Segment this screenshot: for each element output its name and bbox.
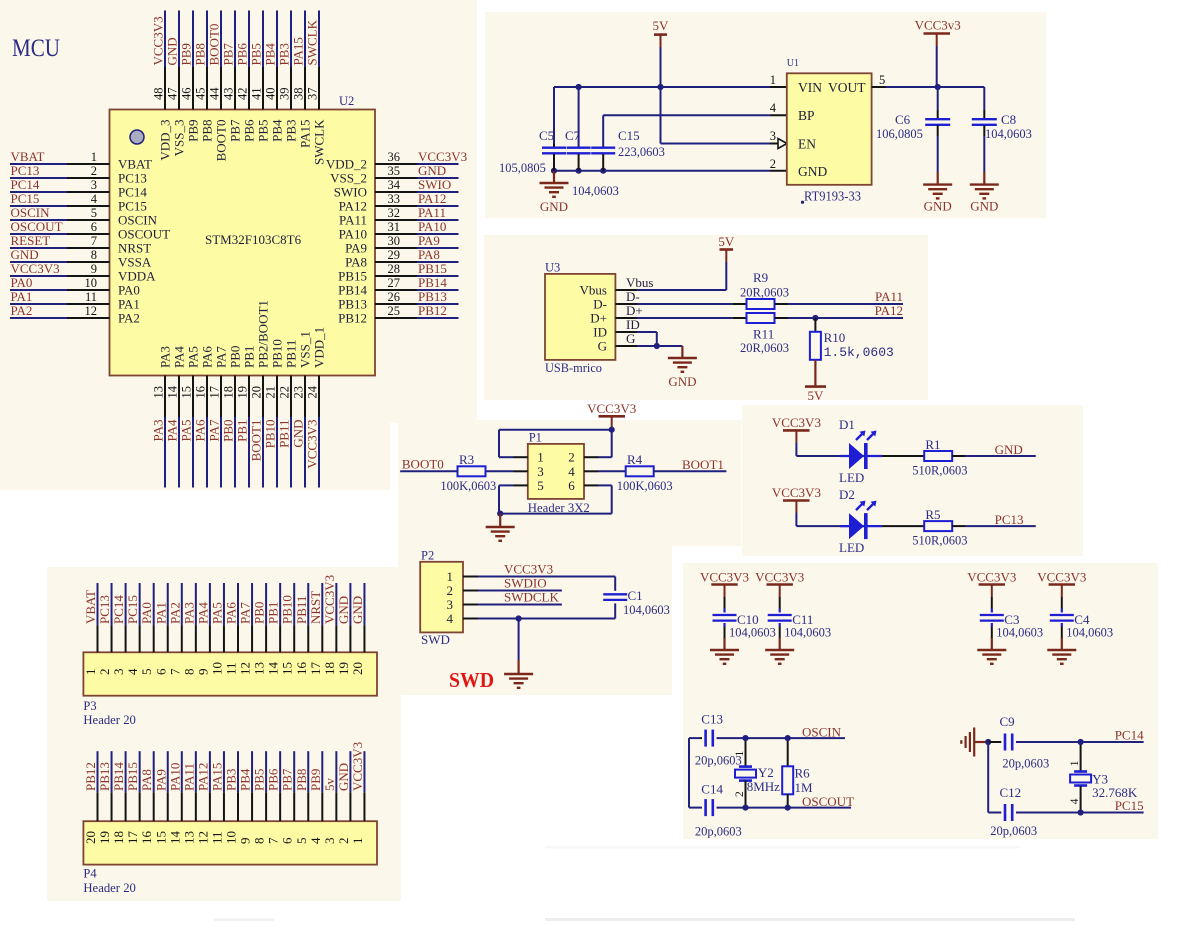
svg-text:PA9: PA9 <box>153 769 168 791</box>
svg-text:D1: D1 <box>839 417 855 432</box>
LED D1 <box>849 443 864 469</box>
wire VIN bus <box>554 86 787 88</box>
svg-text:45: 45 <box>194 88 208 101</box>
wire P1 pin2 to VCC3V3 <box>584 428 612 457</box>
wire Vbus <box>626 262 726 290</box>
resistor R11 <box>747 313 775 323</box>
svg-text:SWD: SWD <box>421 632 450 647</box>
wire P1 pin1 to VCC3V3 <box>499 430 612 458</box>
svg-text:PA15: PA15 <box>291 37 306 65</box>
svg-text:PB0: PB0 <box>221 420 236 442</box>
svg-text:PC14: PC14 <box>11 177 40 192</box>
svg-text:106,0805: 106,0805 <box>876 127 923 141</box>
junction VOUT/C6 <box>935 84 941 90</box>
svg-text:Header 20: Header 20 <box>83 712 135 727</box>
U2 pin 42 PB6 wire+label <box>235 11 257 142</box>
svg-text:10: 10 <box>85 276 98 290</box>
svg-text:NRST: NRST <box>118 241 151 256</box>
junction GND/P1 <box>497 510 503 516</box>
svg-text:BOOT1: BOOT1 <box>682 457 724 472</box>
svg-text:PB1: PB1 <box>266 602 281 624</box>
svg-text:9: 9 <box>195 669 210 676</box>
svg-text:9: 9 <box>91 262 97 276</box>
junction C7 top <box>576 84 582 90</box>
wire P1 pin4 to R4 <box>584 470 626 472</box>
junction Y2 bottom dots <box>742 805 748 811</box>
svg-text:PB3: PB3 <box>277 43 292 65</box>
svg-text:GND: GND <box>165 37 180 65</box>
regulator U1 body <box>787 73 872 185</box>
capacitor C9 <box>1004 734 1007 751</box>
svg-text:C6: C6 <box>895 112 911 127</box>
svg-text:R11: R11 <box>753 327 774 342</box>
svg-text:C12: C12 <box>1000 785 1022 800</box>
svg-text:GND: GND <box>291 420 306 448</box>
svg-text:47: 47 <box>166 88 180 101</box>
svg-text:VBAT: VBAT <box>83 590 98 624</box>
svg-text:13: 13 <box>152 386 166 399</box>
svg-text:PB14: PB14 <box>111 762 126 791</box>
svg-text:PB10: PB10 <box>263 420 278 449</box>
svg-text:VDD_2: VDD_2 <box>326 157 367 172</box>
svg-text:1: 1 <box>734 751 746 757</box>
svg-text:SWIO: SWIO <box>334 185 367 200</box>
U2 pin 29 PA8 wire+label <box>345 247 458 270</box>
resistor R10 <box>810 318 821 360</box>
svg-text:4: 4 <box>125 668 140 675</box>
svg-text:PB5: PB5 <box>249 43 264 65</box>
wire 5V down to EN <box>660 87 662 144</box>
svg-text:PC13: PC13 <box>11 163 40 178</box>
U2 pin 32 PA11 wire+label <box>339 205 458 228</box>
P3 pin 8 PA3 <box>181 583 196 675</box>
svg-text:105,0805: 105,0805 <box>499 161 546 175</box>
U2 pin 17 PA7 wire+label <box>207 346 229 488</box>
svg-text:11: 11 <box>209 831 224 844</box>
U2 pin 26 PB13 wire+label <box>338 289 458 312</box>
svg-text:PB13: PB13 <box>418 289 447 304</box>
svg-text:D-: D- <box>593 297 607 312</box>
svg-text:VSS_2: VSS_2 <box>330 171 367 186</box>
power VCC3V3 symbol C3 <box>967 569 1016 597</box>
svg-text:PC13: PC13 <box>118 171 147 186</box>
capacitor C13 <box>704 730 707 747</box>
svg-text:PB13: PB13 <box>338 297 367 312</box>
svg-text:PB3: PB3 <box>224 769 239 791</box>
wire VOUT <box>872 86 985 88</box>
svg-text:32.768K: 32.768K <box>1092 785 1138 800</box>
svg-text:R9: R9 <box>753 270 768 285</box>
svg-text:EN: EN <box>798 137 816 152</box>
U2 pin 22 PB11 wire+label <box>277 340 299 488</box>
svg-text:PA5: PA5 <box>179 420 194 442</box>
wire PC14 <box>988 741 1143 743</box>
svg-text:4: 4 <box>1069 798 1081 804</box>
svg-text:PB12: PB12 <box>338 311 367 326</box>
U2 pin-1 marker <box>130 130 144 144</box>
svg-text:8: 8 <box>91 248 97 262</box>
svg-text:GND: GND <box>418 163 446 178</box>
svg-text:15: 15 <box>153 831 168 844</box>
svg-text:P4: P4 <box>83 867 97 881</box>
U2 pin 9 VDDA wire+label <box>10 261 156 284</box>
svg-text:PA5: PA5 <box>186 346 201 368</box>
svg-text:C14: C14 <box>701 781 723 796</box>
svg-text:20: 20 <box>83 831 98 844</box>
svg-text:VIN: VIN <box>798 80 822 95</box>
svg-text:VCC3V3: VCC3V3 <box>587 401 636 416</box>
svg-text:17: 17 <box>125 831 140 845</box>
svg-text:31: 31 <box>388 220 401 234</box>
P4 pin 11 PA15 <box>209 751 224 844</box>
P4 pin 5 PB8 <box>294 751 309 844</box>
wire ID <box>626 317 657 346</box>
P3 pin 14 PB1 <box>266 583 281 675</box>
svg-text:PA6: PA6 <box>224 602 239 624</box>
P3 pin 11 PA6 <box>224 583 239 675</box>
capacitor C5 <box>542 87 566 171</box>
svg-text:3: 3 <box>322 838 337 845</box>
svg-text:MCU: MCU <box>12 35 60 62</box>
svg-text:7: 7 <box>167 668 182 675</box>
U3 pin Vbus <box>580 283 637 298</box>
P4 pin 9 PB4 <box>238 751 253 844</box>
svg-text:PB8: PB8 <box>200 120 215 142</box>
ground GND C11 <box>765 638 794 664</box>
svg-text:PA1: PA1 <box>153 602 168 624</box>
svg-text:4: 4 <box>308 837 323 844</box>
MCU U2 body <box>110 110 376 376</box>
svg-text:R6: R6 <box>795 765 811 780</box>
svg-text:VCC3v3: VCC3v3 <box>915 18 961 33</box>
junction Y2 top dots <box>742 735 748 741</box>
svg-text:2: 2 <box>734 791 746 797</box>
svg-text:GND: GND <box>668 374 696 389</box>
U2 pin 43 PB7 wire+label <box>221 11 243 142</box>
wire PC15 <box>988 812 1143 814</box>
svg-text:PB7: PB7 <box>280 768 295 791</box>
P4 pin 6 PB7 <box>280 751 295 844</box>
svg-text:17: 17 <box>208 386 222 399</box>
U2 pin 5 OSCIN wire+label <box>10 205 158 228</box>
svg-text:29: 29 <box>388 248 401 262</box>
svg-text:26: 26 <box>388 290 401 304</box>
power VCC3V3 symbol C11 <box>755 569 804 597</box>
U2 pin 19 PB1 wire+label <box>235 346 257 488</box>
svg-text:PA6: PA6 <box>193 419 208 441</box>
svg-text:PB6: PB6 <box>266 768 281 791</box>
svg-text:PA9: PA9 <box>418 233 440 248</box>
svg-text:NRST: NRST <box>308 591 323 624</box>
svg-text:BOOT0: BOOT0 <box>214 120 229 162</box>
svg-text:25: 25 <box>388 304 401 318</box>
header P2 body <box>420 562 463 633</box>
svg-text:6: 6 <box>153 668 168 675</box>
P3 pin 9 PA4 <box>195 583 210 675</box>
svg-text:VCC3V3: VCC3V3 <box>350 742 365 791</box>
svg-text:GND: GND <box>336 763 351 791</box>
svg-text:LED: LED <box>839 540 864 555</box>
P4 pin 18 PB14 <box>111 751 126 844</box>
svg-text:12: 12 <box>85 304 98 318</box>
power VCC3V3 symbol D2 <box>772 485 821 512</box>
wire R4 to BOOT1 <box>654 470 727 472</box>
svg-text:PA7: PA7 <box>207 419 222 441</box>
wire D- to R9 <box>626 289 746 304</box>
svg-text:OSCIN: OSCIN <box>118 213 158 228</box>
U2 pin 24 VDD_1 wire+label <box>305 327 327 488</box>
svg-text:30: 30 <box>388 234 401 248</box>
svg-text:3: 3 <box>770 129 776 143</box>
U2 pin 11 PA1 wire+label <box>10 289 140 312</box>
svg-text:PC15: PC15 <box>118 199 147 214</box>
svg-text:3: 3 <box>91 178 97 192</box>
svg-text:2: 2 <box>447 583 454 598</box>
wire VCC3V3 to D1 <box>796 442 848 456</box>
svg-text:PB4: PB4 <box>270 119 285 142</box>
svg-text:2: 2 <box>97 669 112 676</box>
resistor R1 <box>924 451 952 461</box>
P3 pin 19 GND <box>336 583 351 675</box>
svg-text:PA1: PA1 <box>11 289 33 304</box>
svg-text:4: 4 <box>568 464 575 479</box>
P3 pin 2 PC13 <box>97 583 112 675</box>
U2 pin 15 PA5 wire+label <box>179 346 201 487</box>
svg-text:VOUT: VOUT <box>828 80 866 95</box>
svg-text:PA8: PA8 <box>418 247 440 262</box>
power VCC3V3 symbol C10 <box>700 569 749 597</box>
U2 pin 2 PC13 wire+label <box>10 163 147 186</box>
junction D+/R10 <box>812 315 818 321</box>
wire P2 pin1 VCC3V3 to C1 <box>463 576 615 578</box>
svg-text:223,0603: 223,0603 <box>618 145 665 159</box>
P3 pin 4 PC15 <box>125 583 140 675</box>
U1 pin numbers <box>770 73 886 171</box>
part name RT9193-33 <box>801 189 861 204</box>
svg-text:44: 44 <box>208 87 222 100</box>
P4 pin 17 PB15 <box>125 751 140 844</box>
wire GND drop P2 <box>518 619 520 675</box>
svg-text:PC13: PC13 <box>995 512 1024 527</box>
svg-text:VDD_3: VDD_3 <box>158 120 173 161</box>
svg-text:1: 1 <box>83 669 98 676</box>
svg-text:PC14: PC14 <box>1115 727 1144 742</box>
svg-text:PA11: PA11 <box>418 205 446 220</box>
svg-text:38: 38 <box>292 88 306 101</box>
svg-text:1: 1 <box>447 569 454 584</box>
U2 pin 25 PB12 wire+label <box>338 303 458 326</box>
wire P2 pin4 GND to C1 <box>463 618 615 620</box>
svg-text:RT9193-33: RT9193-33 <box>804 189 861 204</box>
svg-text:PA4: PA4 <box>165 419 180 441</box>
svg-text:PC15: PC15 <box>125 595 140 624</box>
svg-text:11: 11 <box>224 662 239 675</box>
svg-text:PB0: PB0 <box>252 602 267 624</box>
svg-text:OSCIN: OSCIN <box>802 724 842 739</box>
resistor R9 <box>747 299 775 309</box>
power 5V symbol <box>653 18 670 47</box>
header P4 body <box>83 821 377 864</box>
U2 pin 33 PA12 wire+label <box>339 191 459 214</box>
svg-text:104,0603: 104,0603 <box>623 603 670 617</box>
svg-text:C1: C1 <box>628 588 643 603</box>
svg-text:PA0: PA0 <box>11 275 33 290</box>
P3 pin 15 PB10 <box>280 583 295 675</box>
svg-text:GND: GND <box>924 199 952 214</box>
svg-text:D2: D2 <box>839 487 855 502</box>
svg-text:100K,0603: 100K,0603 <box>440 479 496 493</box>
svg-text:PA3: PA3 <box>158 346 173 368</box>
P4 pin 14 PA10 <box>167 751 182 844</box>
U2 pin 45 PB8 wire+label <box>193 11 215 142</box>
U2 pin 46 PB9 wire+label <box>179 11 201 142</box>
svg-text:VSSA: VSSA <box>118 255 152 270</box>
svg-text:PB9: PB9 <box>179 43 194 65</box>
svg-text:33: 33 <box>388 192 401 206</box>
U3 pin D+ <box>590 311 637 326</box>
svg-text:PA4: PA4 <box>172 346 187 368</box>
U2 pin 7 NRST wire+label <box>10 233 151 256</box>
svg-text:5v: 5v <box>322 778 337 792</box>
svg-text:PA15: PA15 <box>298 120 313 148</box>
svg-text:GND: GND <box>995 442 1023 457</box>
P2 pin numbers <box>447 569 454 626</box>
svg-text:C13: C13 <box>701 711 723 726</box>
svg-text:104,0603: 104,0603 <box>996 626 1043 640</box>
power 5V symbol USB <box>718 234 735 262</box>
svg-text:5V: 5V <box>807 388 824 403</box>
svg-text:VCC3V3: VCC3V3 <box>772 485 821 500</box>
svg-text:PB10: PB10 <box>280 595 295 624</box>
svg-text:Vbus: Vbus <box>580 283 607 298</box>
svg-text:11: 11 <box>85 290 97 304</box>
svg-text:GND: GND <box>970 199 998 214</box>
wire EN <box>661 139 788 149</box>
svg-text:12: 12 <box>195 831 210 844</box>
svg-text:20: 20 <box>350 662 365 675</box>
svg-text:22: 22 <box>278 386 292 399</box>
wire P2 pin2 SWDIO <box>463 590 562 592</box>
P3 pin 13 PB0 <box>252 583 267 675</box>
svg-text:VCC3V3: VCC3V3 <box>305 420 320 469</box>
wire P2 pin3 SWDCLK <box>463 604 562 606</box>
wire VOUT to C8 <box>983 87 985 110</box>
svg-text:VCC3V3: VCC3V3 <box>418 149 467 164</box>
svg-text:PB0: PB0 <box>228 346 243 368</box>
svg-text:R10: R10 <box>824 330 846 345</box>
capacitor C6 <box>925 87 950 185</box>
svg-text:VBAT: VBAT <box>118 157 152 172</box>
svg-text:GND: GND <box>11 247 39 262</box>
svg-text:15: 15 <box>280 662 295 675</box>
ground GND C10 <box>710 638 739 664</box>
P1 pin numbers <box>537 450 575 493</box>
resistor R6 <box>782 738 793 808</box>
svg-text:PB3: PB3 <box>284 120 299 142</box>
wire P1 pin3 to R3 <box>485 470 527 472</box>
svg-text:VDDA: VDDA <box>118 269 156 284</box>
svg-text:PA3: PA3 <box>151 420 166 442</box>
U2 pin 30 PA9 wire+label <box>345 233 458 256</box>
svg-text:104,0603: 104,0603 <box>985 127 1032 141</box>
svg-text:PB14: PB14 <box>418 275 447 290</box>
svg-text:32: 32 <box>388 206 401 220</box>
svg-text:35: 35 <box>388 164 401 178</box>
svg-text:24: 24 <box>306 385 320 398</box>
svg-text:6: 6 <box>91 220 97 234</box>
svg-text:Vbus: Vbus <box>626 275 653 290</box>
svg-text:D+: D+ <box>590 311 607 326</box>
svg-text:OSCIN: OSCIN <box>11 205 51 220</box>
junction VCC3V3/P1 <box>609 427 615 433</box>
USB connector U3 body <box>545 274 615 360</box>
svg-text:P3: P3 <box>83 699 96 713</box>
svg-text:PB15: PB15 <box>338 269 367 284</box>
svg-text:GND: GND <box>540 199 568 214</box>
ground GND below C5 <box>540 171 569 214</box>
header P3 body <box>83 652 377 695</box>
P4 pin 15 PA9 <box>153 751 168 844</box>
svg-text:20p,0603: 20p,0603 <box>990 824 1037 838</box>
U2 pin 44 BOOT0 wire+label <box>207 11 229 162</box>
svg-text:18: 18 <box>111 831 126 844</box>
svg-text:1: 1 <box>91 150 97 164</box>
svg-text:6: 6 <box>568 478 575 493</box>
svg-text:PB11: PB11 <box>277 420 292 448</box>
svg-text:PB8: PB8 <box>193 43 208 65</box>
wire R1 to GND <box>952 455 1036 457</box>
P3 pin 7 PA2 <box>167 583 182 675</box>
svg-text:5: 5 <box>879 73 885 87</box>
power 5V inverted symbol <box>805 360 826 403</box>
U2 pin 39 PB3 wire+label <box>277 11 299 142</box>
svg-text:PB4: PB4 <box>238 768 253 791</box>
svg-text:VDD_1: VDD_1 <box>312 327 327 368</box>
svg-text:2: 2 <box>91 164 97 178</box>
svg-text:VCC3V3: VCC3V3 <box>967 569 1016 584</box>
svg-text:14: 14 <box>166 385 180 398</box>
capacitor C8 <box>972 110 997 185</box>
wire 5V to VIN rail <box>660 47 662 87</box>
capacitor C10 <box>713 597 737 638</box>
junction PC14/Y3 <box>1078 739 1084 745</box>
svg-text:PA8: PA8 <box>345 255 367 270</box>
svg-text:BOOT0: BOOT0 <box>207 24 222 66</box>
U2 pin 20 PB2/BOOT1 wire+label <box>249 300 271 487</box>
svg-text:14: 14 <box>167 831 182 845</box>
svg-text:5: 5 <box>91 206 97 220</box>
svg-text:R3: R3 <box>459 452 474 467</box>
svg-text:23: 23 <box>292 386 306 399</box>
ground GND P1 <box>486 514 515 541</box>
svg-text:7: 7 <box>266 837 281 844</box>
svg-text:C7: C7 <box>565 128 581 143</box>
junction PC15/Y3 <box>1078 809 1084 815</box>
wire R3 to BOOT0 <box>400 470 457 472</box>
U3 pin ID <box>593 325 637 340</box>
P4 pin 10 PB3 <box>224 751 239 844</box>
U2 pin 12 PA2 wire+label <box>10 303 140 326</box>
U2 pin 4 PC15 wire+label <box>10 191 147 214</box>
svg-text:PB12: PB12 <box>83 762 98 791</box>
wire VCC3v3 to VOUT <box>936 46 938 87</box>
svg-text:PB11: PB11 <box>284 340 299 368</box>
svg-text:37: 37 <box>306 88 320 101</box>
svg-text:PB5: PB5 <box>252 769 267 791</box>
wire R5 to PC13 <box>952 525 1036 527</box>
svg-text:21: 21 <box>264 386 278 399</box>
P3 pin 17 NRST <box>308 583 323 675</box>
